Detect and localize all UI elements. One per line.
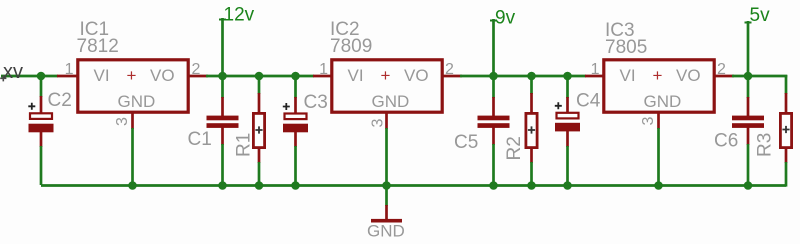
svg-text:7812: 7812 [77,36,119,57]
wire rail to C5 [492,76,495,98]
capacitor C2 polarized [28,90,71,147]
junction bus/C4 [563,181,572,190]
svg-text:1: 1 [591,61,600,78]
pin IC1 VI stub [57,75,77,78]
wire C6 to bus [747,144,750,186]
pin IC3 GND stub [657,113,660,129]
wire C2 to bus corner [40,146,43,185]
pin R2 top stub [530,93,533,113]
node 12v cross tick [219,19,226,21]
pin IC2 VI stub [313,75,332,78]
svg-text:C5: C5 [454,132,478,153]
capacitor C6 [714,76,764,186]
wire IC1 out rail [206,75,314,78]
junction bus/IC2 gnd [382,181,391,190]
wire rail to R1 [258,76,261,94]
resistor R1 [234,76,265,186]
svg-text:5v: 5v [750,5,771,26]
C3 positive plate (hollow) [285,114,307,120]
resistor R3 [755,75,792,187]
svg-text:GND: GND [367,222,405,241]
pin R3 bottom stub [785,148,788,163]
svg-text:9v: 9v [495,8,516,29]
junction rail/C2 [37,72,46,81]
pin C2 bottom stub [40,132,43,147]
junction rail/C4 [563,72,572,81]
svg-text:GND: GND [118,92,156,111]
junction rail/R2 [527,72,536,81]
capacitor C5 [454,76,510,186]
junction rail/C3 [291,72,300,81]
svg-text:C4: C4 [576,91,601,112]
C2 negative plate (filled) [29,124,54,133]
pin R1 top stub [258,93,261,113]
junction bus/R1 [255,181,264,190]
pin C1 top stub [221,97,224,116]
ground symbol [367,186,405,241]
svg-text:+: + [381,66,391,85]
junction rail/5v/C6 [744,72,753,81]
ground bar [371,219,402,223]
C4 positive plate (hollow) [557,113,579,119]
C4 plus mark [555,102,562,109]
pin C1 bottom stub [221,128,224,146]
junction bus/C5 [489,181,498,190]
pin R2 bottom stub [530,148,533,163]
pin C2 top stub [40,96,43,117]
pin R1 bottom stub [258,148,261,163]
voltage regulator IC2 box [332,60,442,112]
junction bus/C3 [291,181,300,190]
pin C4 top stub [566,97,569,117]
pin IC3 VI stub [585,75,604,78]
wire C4 to bus [566,146,569,186]
wire R3 to bus [785,162,788,187]
C3 negative plate (filled) [283,124,308,133]
node XV label cross [0,75,6,81]
R3 plus mark [782,126,789,133]
wire C2 drop from rail [40,76,43,97]
C2 positive plate (hollow) [30,113,52,119]
junction bus/R2 [527,181,536,190]
C3 plus mark [283,103,290,110]
svg-text:VO: VO [404,66,429,85]
C2 plus mark [28,103,35,110]
wire bus to ground [385,186,388,207]
svg-text:1: 1 [65,61,74,78]
svg-text:GND: GND [644,92,682,111]
junction rail/R1 [255,72,264,81]
capacitor C1 [188,76,239,186]
svg-text:R1: R1 [234,133,255,157]
svg-text:xv: xv [3,61,23,83]
wire 5v riser [747,21,750,76]
pin C5 bottom stub [492,128,495,146]
C6 bottom plate [732,123,764,128]
wire C1 to bus [221,144,224,186]
wire rail to C6 [747,76,750,98]
R2 body box [526,113,537,147]
svg-text:C3: C3 [304,92,328,113]
wire 9v riser [492,19,495,76]
node 5v cross tick [745,22,752,24]
wire IC1 GND to bus [131,128,134,186]
pin C6 bottom stub [747,128,750,146]
pin IC3 VO stub [714,75,734,78]
pin IC1 GND stub [131,113,134,129]
svg-text:C2: C2 [48,90,72,111]
svg-text:R3: R3 [755,133,776,157]
wire rail to R2 [530,76,533,94]
svg-text:3: 3 [370,119,387,128]
wire R2 to bus [530,162,533,186]
wire IC3 out to 5v node [732,75,787,78]
R1 body box [253,113,264,147]
wire IC2 GND to bus [385,128,388,186]
node 9v cross tick [490,20,497,22]
pin ground stub [385,205,388,219]
wire corner down to R3 [785,75,788,94]
wire input rail segment [1,75,58,78]
svg-text:C6: C6 [714,131,738,152]
svg-text:+: + [127,66,137,85]
pin R3 top stub [785,93,788,113]
pin IC2 VO stub [442,75,462,78]
svg-text:R2: R2 [504,136,525,160]
op-amp? no: voltage regulator IC1 box [78,60,188,112]
C1 top plate [207,116,239,121]
wire rail to C1 [221,76,224,98]
junction bus/IC1 gnd [128,181,137,190]
pin C5 top stub [492,97,495,116]
svg-text:C1: C1 [188,129,212,150]
R3 body box [780,113,791,147]
R1 plus mark [255,126,262,133]
pin C3 bottom stub [294,132,297,147]
C6 top plate [732,116,764,121]
pin C6 top stub [747,97,750,116]
wire IC3 GND to bus [657,128,660,186]
svg-text:3: 3 [640,117,657,126]
wire 12v riser [221,18,224,76]
svg-text:GND: GND [372,92,410,111]
R2 plus mark [528,126,535,133]
C5 bottom plate [478,123,510,128]
voltage regulator IC3 box [604,60,714,112]
wire rail to C4 [566,76,569,98]
pin IC2 GND stub [385,113,388,129]
svg-text:VI: VI [94,66,110,85]
junction bus/C1 [218,181,227,190]
junction rail/12v/C1 [218,72,227,81]
svg-text:12v: 12v [224,5,255,26]
wire ground bus [41,184,786,187]
svg-text:7809: 7809 [330,36,372,57]
pin C3 top stub [294,97,297,117]
C4 negative plate (filled) [555,123,580,132]
wire IC2 out rail [460,75,586,78]
junction rail/9v/C5 [489,72,498,81]
svg-text:1: 1 [319,61,328,78]
wire C5 to bus [492,144,495,186]
capacitor C4 polarized [555,76,601,186]
junction bus/IC3 gnd [654,181,663,190]
svg-text:VI: VI [348,66,364,85]
wire C3 to bus [294,146,297,186]
wire rail to C3 [294,76,297,98]
pin IC1 VO stub [188,75,208,78]
capacitor C3 polarized [283,76,328,186]
svg-text:VO: VO [676,66,701,85]
svg-text:+: + [653,66,663,85]
svg-text:3: 3 [114,117,131,126]
C1 bottom plate [207,123,239,128]
svg-text:VO: VO [150,66,175,85]
pin C4 bottom stub [566,131,569,147]
C5 top plate [478,116,510,121]
svg-text:7805: 7805 [605,37,647,58]
svg-text:VI: VI [620,66,636,85]
junction bus/C6 [744,181,753,190]
resistor R2 [504,76,537,186]
wire R1 to bus [258,162,261,186]
